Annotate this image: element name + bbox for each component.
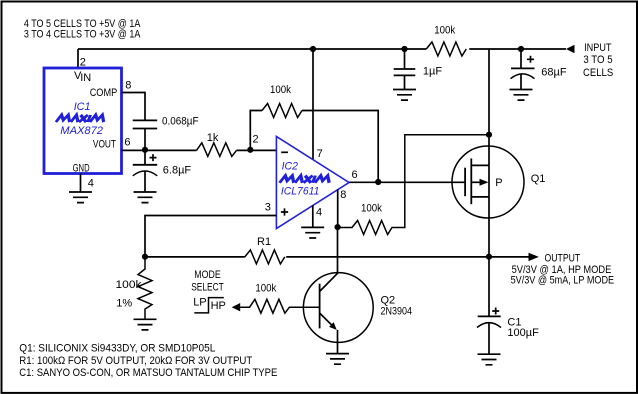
svg-text:HP: HP xyxy=(211,300,226,312)
node rail pin7 xyxy=(310,46,316,52)
wire Q1 drain to output xyxy=(488,197,490,257)
mode select labels xyxy=(191,269,226,312)
op-amp IC2 ICL7611 triangle xyxy=(276,137,349,229)
svg-text:100k: 100k xyxy=(361,203,382,215)
wire IC1 pin 4 xyxy=(80,174,82,193)
Q2 collector xyxy=(320,227,338,292)
svg-text:C1: SANYO OS-CON, OR MATSUO TA: C1: SANYO OS-CON, OR MATSUO TANTALUM CHI… xyxy=(19,367,277,379)
svg-text:GND: GND xyxy=(73,163,90,175)
svg-text:SELECT: SELECT xyxy=(191,282,224,294)
svg-text:6: 6 xyxy=(124,137,130,149)
wire feedback to output xyxy=(302,111,378,183)
node 68uF xyxy=(518,46,524,52)
wire output line xyxy=(145,256,529,258)
svg-text:1µF: 1µF xyxy=(423,65,442,77)
svg-text:4: 4 xyxy=(88,178,94,190)
capacitor 68uF xyxy=(520,49,522,68)
svg-text:6: 6 xyxy=(352,169,358,181)
node pin3/R1 xyxy=(142,254,148,260)
svg-text:1%: 1% xyxy=(116,298,132,310)
svg-text:2N3904: 2N3904 xyxy=(381,306,413,318)
Q2 base bar xyxy=(319,284,321,329)
svg-text:100µF: 100µF xyxy=(507,327,539,339)
node output C1 xyxy=(486,254,492,260)
wire IC1 pin 2 xyxy=(77,49,79,68)
wire op-amp pin 8 xyxy=(337,190,339,227)
svg-text:ICL7611: ICL7611 xyxy=(281,186,320,198)
svg-text:R1: R1 xyxy=(257,236,271,248)
ground 100k 1% xyxy=(134,319,157,330)
svg-text:OUTPUT: OUTPUT xyxy=(545,252,581,264)
ground C1 xyxy=(478,354,501,365)
resistor R1 xyxy=(245,250,285,264)
Q1 bulk arrow xyxy=(471,181,480,183)
ground Q2 xyxy=(326,354,349,365)
svg-text:3: 3 xyxy=(265,202,271,214)
Q1 gate bar xyxy=(464,168,466,197)
svg-text:Q1: Q1 xyxy=(531,173,546,185)
input arrow xyxy=(566,45,575,54)
ground IC1 xyxy=(69,192,92,203)
transistor Q1 P-MOSFET xyxy=(452,146,524,218)
mode arrow xyxy=(232,303,241,311)
plus input sign xyxy=(281,208,288,215)
Q1 top lead xyxy=(471,164,489,166)
node 1uF xyxy=(401,46,407,52)
Q1 inner vertical xyxy=(488,165,490,197)
svg-text:100k: 100k xyxy=(255,283,276,295)
svg-text:100k: 100k xyxy=(434,25,455,37)
svg-text:INPUT: INPUT xyxy=(584,42,612,54)
svg-text:CELLS: CELLS xyxy=(583,67,613,79)
wire op-amp output to Q1 gate xyxy=(349,181,465,183)
svg-text:6.8µF: 6.8µF xyxy=(163,165,192,177)
node Q1 source xyxy=(486,132,492,138)
svg-text:LP: LP xyxy=(193,297,206,309)
capacitor 0.068uF xyxy=(133,120,158,128)
resistor 100k top xyxy=(426,42,466,56)
svg-text:3 TO 5: 3 TO 5 xyxy=(583,54,612,66)
svg-text:8: 8 xyxy=(340,189,346,201)
svg-text:100k: 100k xyxy=(116,279,143,291)
svg-text:Q2: Q2 xyxy=(381,294,396,306)
svg-text:VOUT: VOUT xyxy=(93,138,116,150)
node VOUT xyxy=(142,147,148,153)
svg-text:COMP: COMP xyxy=(90,87,118,99)
svg-text:1k: 1k xyxy=(207,132,219,144)
svg-text:68µF: 68µF xyxy=(541,66,567,78)
wire VOUT line xyxy=(122,149,277,151)
svg-text:5V/3V @ 5mA, LP MODE: 5V/3V @ 5mA, LP MODE xyxy=(511,274,614,286)
svg-text:4: 4 xyxy=(316,206,322,218)
svg-text:MAX872: MAX872 xyxy=(60,125,103,137)
svg-text:IN: IN xyxy=(80,72,91,84)
svg-text:0.068µF: 0.068µF xyxy=(162,115,199,127)
resistor 100k mode xyxy=(240,299,319,313)
transistor Q2 2N3904 xyxy=(303,273,373,343)
mode step waveform xyxy=(194,298,224,313)
svg-text:8: 8 xyxy=(125,80,131,92)
notes bottom xyxy=(19,343,277,380)
wire IC1 pin 8 COMP xyxy=(122,93,146,121)
svg-text:3 TO 4 CELLS TO +3V @ 1A: 3 TO 4 CELLS TO +3V @ 1A xyxy=(24,29,141,41)
IC1 MAX872 box xyxy=(44,68,122,174)
output labels xyxy=(511,252,614,286)
svg-text:2: 2 xyxy=(253,134,259,146)
Q1 bottom lead xyxy=(471,196,489,198)
svg-text:Q1: SILICONIX Si9433DY, OR S: Q1: SILICONIX Si9433DY, OR SMD10P05L xyxy=(19,343,215,355)
resistor 1k xyxy=(197,143,237,157)
capacitor 1uF xyxy=(404,49,406,69)
minus input sign xyxy=(281,151,288,153)
IC1 VIN pin label xyxy=(74,70,91,84)
svg-text:IC2: IC2 xyxy=(282,160,298,172)
ground 68uF xyxy=(510,90,533,101)
Q1 channel bar xyxy=(470,159,472,205)
node feedback output xyxy=(375,179,381,185)
wire Q1 source to rail xyxy=(488,49,490,165)
wire top supply rail xyxy=(78,48,566,50)
resistor 100k feedback xyxy=(250,111,262,151)
svg-text:MODE: MODE xyxy=(194,269,220,281)
input label xyxy=(583,42,613,79)
note: input cells text xyxy=(24,18,141,41)
MAXIM logo IC2 xyxy=(280,176,331,183)
capacitor C1 100uF xyxy=(488,257,490,317)
resistor 100k pin8 xyxy=(338,135,490,235)
ground op-amp xyxy=(301,227,324,238)
ground 1uF xyxy=(393,90,416,101)
ground 6.8uF xyxy=(134,192,157,203)
node inverting input xyxy=(247,147,253,153)
svg-text:IC1: IC1 xyxy=(74,101,91,113)
output arrow xyxy=(529,253,539,261)
svg-text:R1: 100kΩ FOR 5V OUTPUT, 20kΩ: R1: 100kΩ FOR 5V OUTPUT, 20kΩ FOR 3V OUT… xyxy=(19,355,252,367)
svg-text:P: P xyxy=(495,177,502,189)
wire op-amp pin 4 xyxy=(312,206,314,228)
svg-text:100k: 100k xyxy=(270,84,291,96)
node pin 8 xyxy=(335,224,341,230)
wire pin 3 input xyxy=(145,216,276,257)
capacitor 6.8uF xyxy=(144,150,146,164)
Q2 emitter xyxy=(320,313,333,326)
wire op-amp pin 7 supply xyxy=(312,49,314,160)
svg-text:7: 7 xyxy=(317,148,323,160)
resistor 100k 1% xyxy=(138,257,152,319)
